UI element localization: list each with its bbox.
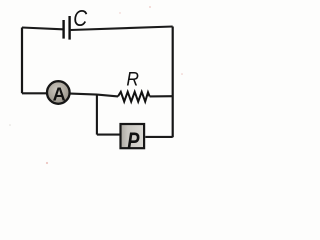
capacitor C: [64, 5, 88, 40]
wire top-left segment: [22, 28, 63, 30]
wire ammeter left lead: [22, 92, 47, 94]
svg-text:A: A: [53, 85, 66, 105]
ammeter A: [47, 81, 70, 104]
wire branch vertical: [96, 95, 98, 135]
svg-text:R: R: [126, 68, 139, 90]
node junction: [97, 95, 118, 97]
wire left vertical: [21, 28, 23, 94]
wire ammeter to junction: [71, 94, 98, 95]
wire P right lead: [145, 136, 172, 138]
resistor R: [118, 68, 150, 101]
wire resistor right lead: [150, 95, 173, 97]
wire right vertical: [172, 27, 174, 138]
wire top-right segment: [71, 27, 173, 31]
svg-text:C: C: [73, 5, 87, 31]
component P: [121, 124, 145, 154]
wire branch to P: [97, 134, 120, 136]
svg-text:P: P: [127, 128, 140, 154]
